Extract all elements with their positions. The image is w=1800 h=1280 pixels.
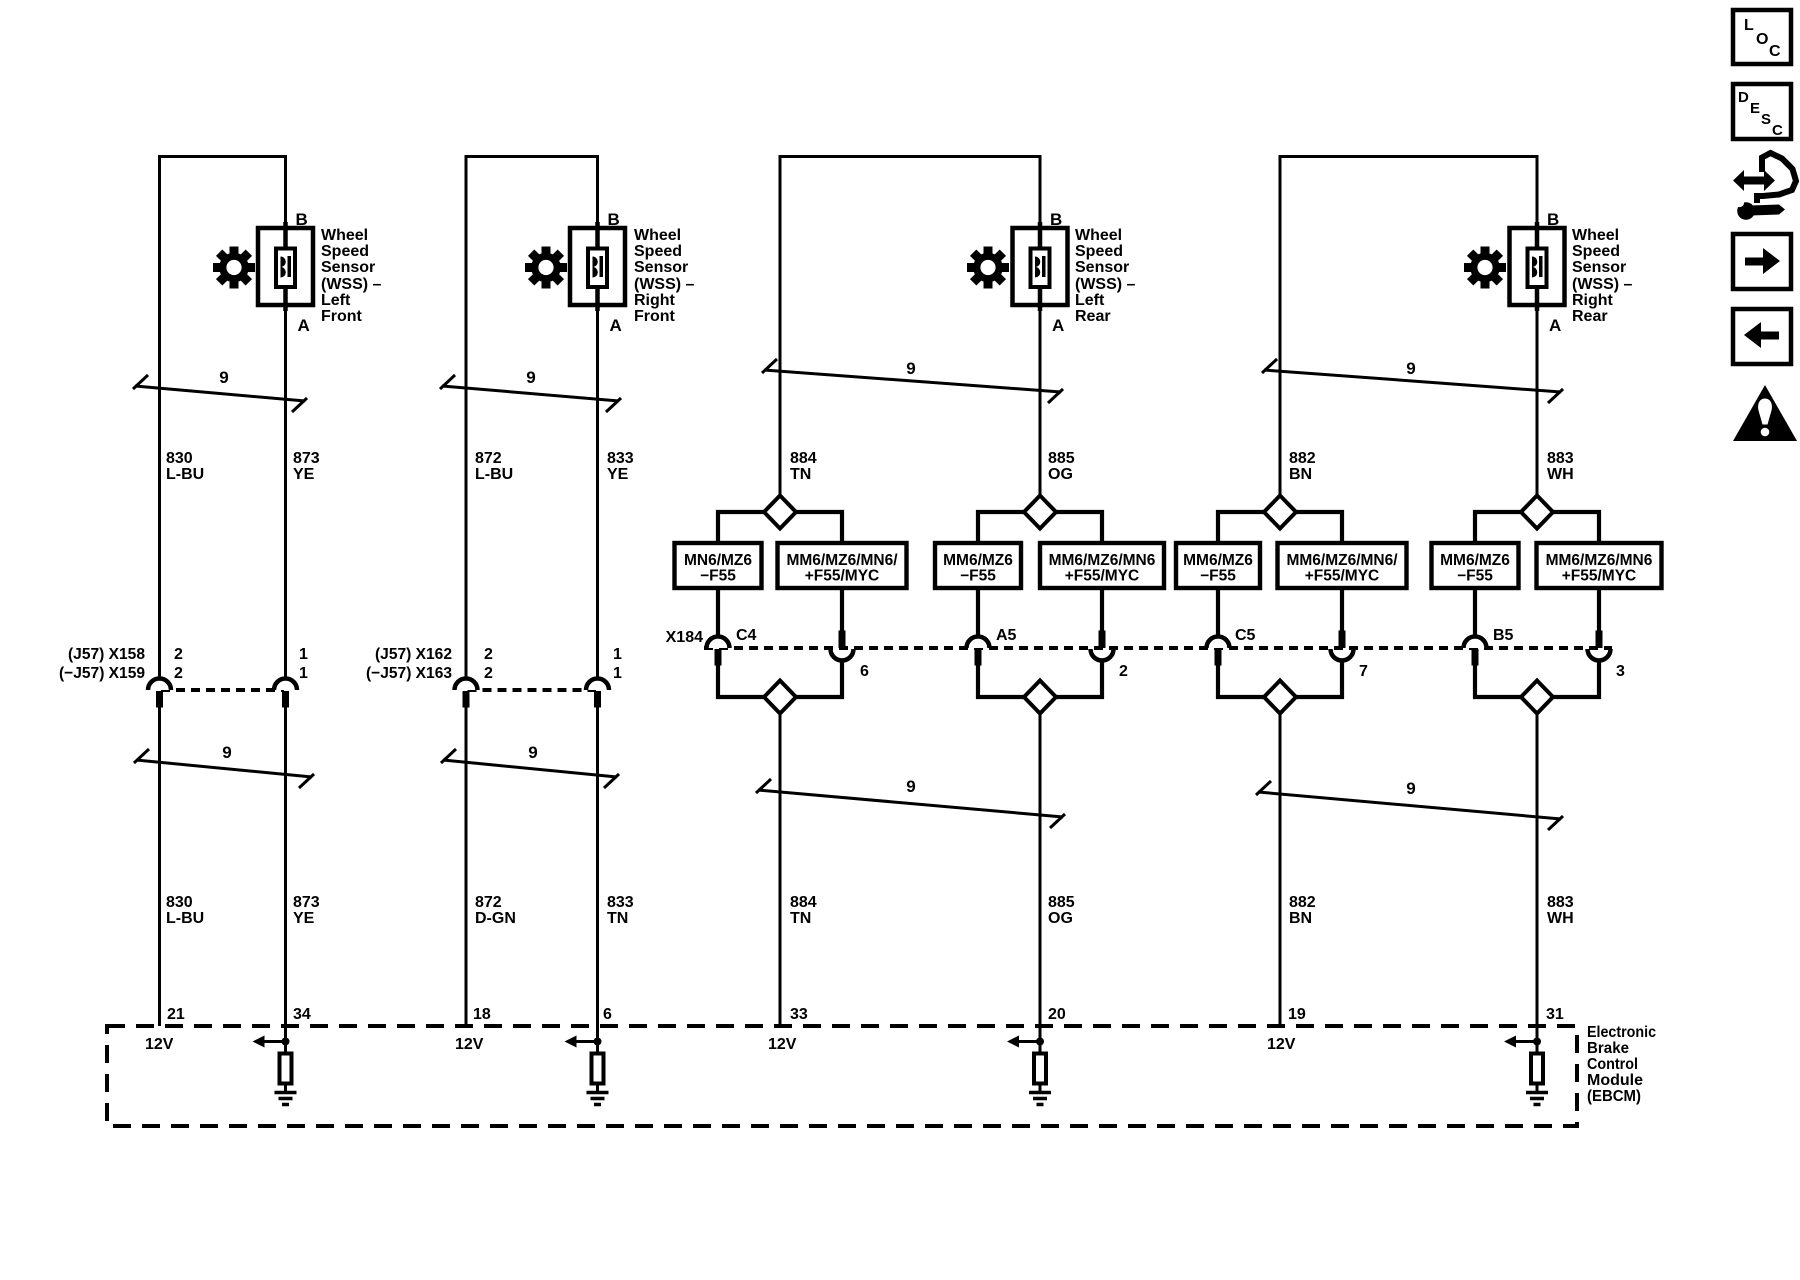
svg-text:Wheel: Wheel bbox=[321, 227, 368, 244]
svg-text:34: 34 bbox=[293, 1006, 311, 1023]
svg-text:(J57) X162: (J57) X162 bbox=[375, 646, 452, 663]
wire loop top LR sensor bbox=[779, 155, 1042, 158]
svg-text:Sensor: Sensor bbox=[321, 259, 375, 276]
svg-text:9: 9 bbox=[219, 368, 228, 387]
Wheel Speed Sensor (WSS) - Left Rear bbox=[1013, 210, 1068, 335]
svg-text:9: 9 bbox=[906, 777, 915, 796]
svg-text:12V: 12V bbox=[455, 1036, 484, 1053]
svg-text:MM6/MZ6/MN6/: MM6/MZ6/MN6/ bbox=[1286, 552, 1398, 569]
twisted pair marker 9 lower RR bbox=[1256, 781, 1563, 830]
svg-text:884: 884 bbox=[790, 450, 817, 467]
svg-text:2: 2 bbox=[174, 665, 183, 682]
node split wire 884 bbox=[718, 512, 842, 697]
svg-text:9: 9 bbox=[906, 359, 915, 378]
svg-text:6: 6 bbox=[603, 1006, 612, 1023]
gear icon RF bbox=[516, 238, 575, 297]
svg-text:(J57) X158: (J57) X158 bbox=[68, 646, 145, 663]
svg-text:830: 830 bbox=[166, 450, 193, 467]
svg-text:BN: BN bbox=[1289, 466, 1312, 483]
svg-text:OG: OG bbox=[1048, 910, 1073, 927]
connector X162/X163 terminal pin 1 bbox=[586, 679, 609, 708]
svg-text:882: 882 bbox=[1289, 450, 1316, 467]
svg-text:883: 883 bbox=[1547, 894, 1574, 911]
option box MM6/MZ6/MN6+F55/MYC (4) bbox=[1537, 543, 1662, 588]
svg-text:TN: TN bbox=[790, 910, 811, 927]
svg-text:873: 873 bbox=[293, 894, 320, 911]
svg-text:MM6/MZ6: MM6/MZ6 bbox=[943, 552, 1013, 569]
twisted pair marker 9 lower LF bbox=[134, 749, 314, 788]
svg-text:YE: YE bbox=[293, 466, 315, 483]
wire 883 WH lower bbox=[1536, 713, 1539, 1026]
connector X184 terminal A5 bbox=[967, 637, 990, 666]
Wheel Speed Sensor (WSS) - Right Rear bbox=[1510, 210, 1565, 335]
icon arrow right box bbox=[1733, 234, 1791, 289]
wire 885 OG lower bbox=[1039, 713, 1042, 1026]
svg-text:833: 833 bbox=[607, 894, 634, 911]
svg-text:884: 884 bbox=[790, 894, 817, 911]
wire 884 TN lower bbox=[779, 713, 782, 1026]
svg-text:Rear: Rear bbox=[1572, 308, 1608, 325]
svg-text:883: 883 bbox=[1547, 450, 1574, 467]
Wheel Speed Sensor (WSS) - Right Front bbox=[570, 210, 625, 335]
svg-text:MM6/MZ6/MN6/: MM6/MZ6/MN6/ bbox=[786, 552, 898, 569]
wire loop top RR sensor bbox=[1279, 155, 1539, 158]
svg-text:(−J57) X159: (−J57) X159 bbox=[59, 665, 145, 682]
svg-text:OG: OG bbox=[1048, 466, 1073, 483]
internal resistor to ground pin 31 bbox=[1504, 1026, 1548, 1105]
svg-text:−F55: −F55 bbox=[960, 568, 996, 585]
svg-text:872: 872 bbox=[475, 450, 502, 467]
svg-text:−F55: −F55 bbox=[1200, 568, 1236, 585]
svg-text:Sensor: Sensor bbox=[1572, 259, 1626, 276]
connector X158/X159 dashed line bbox=[161, 688, 284, 692]
Wheel Speed Sensor (WSS) - Left Front bbox=[258, 210, 313, 335]
svg-text:18: 18 bbox=[473, 1006, 491, 1023]
svg-text:885: 885 bbox=[1048, 894, 1075, 911]
wire 882 BN lower bbox=[1279, 713, 1282, 1026]
svg-text:TN: TN bbox=[607, 910, 628, 927]
option box MM6/MZ6/MN6+F55/MYC (2) bbox=[1040, 543, 1164, 588]
svg-text:O: O bbox=[1756, 31, 1768, 48]
icon LOC box bbox=[1733, 10, 1791, 64]
svg-text:Wheel: Wheel bbox=[1075, 227, 1122, 244]
svg-text:MM6/MZ6: MM6/MZ6 bbox=[1183, 552, 1253, 569]
svg-text:1: 1 bbox=[613, 665, 622, 682]
wire 872 D-GN lower bbox=[465, 707, 468, 1026]
wire 873 YE upper bbox=[284, 155, 287, 678]
EBCM module dashed box bbox=[107, 1026, 1577, 1126]
wire 833 YE upper bbox=[596, 155, 599, 678]
svg-text:(WSS) –: (WSS) – bbox=[1572, 276, 1633, 293]
connector X162/X163 terminal pin 2 bbox=[455, 679, 478, 708]
svg-text:L-BU: L-BU bbox=[475, 466, 513, 483]
svg-text:Wheel: Wheel bbox=[1572, 227, 1619, 244]
svg-text:872: 872 bbox=[475, 894, 502, 911]
svg-text:833: 833 bbox=[607, 450, 634, 467]
svg-text:YE: YE bbox=[607, 466, 629, 483]
svg-text:Brake: Brake bbox=[1587, 1040, 1629, 1057]
svg-text:Module: Module bbox=[1587, 1072, 1643, 1089]
svg-text:C: C bbox=[1769, 43, 1781, 60]
svg-text:MN6/MZ6: MN6/MZ6 bbox=[684, 552, 752, 569]
svg-text:WH: WH bbox=[1547, 910, 1574, 927]
svg-text:6: 6 bbox=[860, 663, 869, 680]
internal resistor to ground pin 6 bbox=[565, 1026, 609, 1105]
connector X158/X159 terminal pin 2 bbox=[148, 679, 171, 708]
svg-text:Front: Front bbox=[321, 308, 363, 325]
svg-text:31: 31 bbox=[1546, 1006, 1564, 1023]
svg-text:A5: A5 bbox=[996, 627, 1017, 644]
svg-text:12V: 12V bbox=[1267, 1036, 1296, 1053]
icon warning triangle bbox=[1733, 385, 1797, 441]
svg-text:Sensor: Sensor bbox=[1075, 259, 1129, 276]
svg-text:X184: X184 bbox=[666, 629, 703, 646]
wire 830 L-BU upper bbox=[158, 155, 161, 678]
option box MM6/MZ6/MN6/+F55/MYC (3) bbox=[1278, 543, 1407, 588]
svg-text:E: E bbox=[1750, 100, 1760, 117]
svg-text:1: 1 bbox=[613, 646, 622, 663]
twisted pair marker 9 upper RF bbox=[440, 375, 621, 412]
svg-text:Right: Right bbox=[634, 292, 676, 309]
svg-text:2: 2 bbox=[1119, 663, 1128, 680]
svg-text:C: C bbox=[1772, 122, 1783, 139]
option box MM6/MZ6/MN6/+F55/MYC (1) bbox=[778, 543, 907, 588]
connector X184 dashed line bbox=[704, 646, 1612, 650]
twisted pair marker 9 upper RR bbox=[1262, 359, 1563, 403]
icon DESC box bbox=[1733, 84, 1791, 139]
svg-text:9: 9 bbox=[1406, 779, 1415, 798]
wire 882 BN upper bbox=[1279, 155, 1282, 496]
svg-text:TN: TN bbox=[790, 466, 811, 483]
wire loop top LF sensor bbox=[158, 155, 287, 158]
svg-text:2: 2 bbox=[174, 646, 183, 663]
gear icon LR bbox=[958, 238, 1017, 297]
svg-text:−F55: −F55 bbox=[1457, 568, 1493, 585]
svg-text:−F55: −F55 bbox=[700, 568, 736, 585]
svg-text:885: 885 bbox=[1048, 450, 1075, 467]
svg-text:YE: YE bbox=[293, 910, 315, 927]
svg-text:1: 1 bbox=[299, 646, 308, 663]
gear icon RR bbox=[1455, 238, 1514, 297]
option box MN6/MZ6 -F55 (1) bbox=[675, 543, 762, 588]
svg-text:+F55/MYC: +F55/MYC bbox=[1562, 568, 1637, 585]
option box MM6/MZ6 -F55 (3) bbox=[1176, 543, 1260, 588]
svg-text:L: L bbox=[1744, 17, 1754, 34]
svg-text:Wheel: Wheel bbox=[634, 227, 681, 244]
svg-text:S: S bbox=[1761, 111, 1771, 128]
svg-text:Speed: Speed bbox=[321, 243, 369, 260]
svg-text:7: 7 bbox=[1359, 663, 1368, 680]
internal resistor to ground pin 34 bbox=[253, 1026, 297, 1105]
svg-text:Speed: Speed bbox=[634, 243, 682, 260]
svg-text:BN: BN bbox=[1289, 910, 1312, 927]
svg-text:D: D bbox=[1738, 89, 1749, 106]
svg-text:12V: 12V bbox=[768, 1036, 797, 1053]
wire 872 L-BU upper bbox=[465, 155, 468, 678]
svg-text:Sensor: Sensor bbox=[634, 259, 688, 276]
svg-text:+F55/MYC: +F55/MYC bbox=[805, 568, 880, 585]
gear icon LF bbox=[204, 238, 263, 297]
svg-text:+F55/MYC: +F55/MYC bbox=[1305, 568, 1380, 585]
connector X158/X159 terminal pin 1 bbox=[274, 679, 297, 708]
connector X162/X163 dashed line bbox=[468, 688, 597, 692]
svg-text:12V: 12V bbox=[145, 1036, 174, 1053]
twisted pair marker 9 upper LR bbox=[762, 359, 1063, 403]
svg-text:Front: Front bbox=[634, 308, 676, 325]
svg-text:Speed: Speed bbox=[1572, 243, 1620, 260]
node split wire 883 bbox=[1475, 512, 1599, 697]
svg-text:MM6/MZ6/MN6: MM6/MZ6/MN6 bbox=[1546, 552, 1653, 569]
svg-text:9: 9 bbox=[222, 743, 231, 762]
icon arrow left box bbox=[1733, 309, 1791, 364]
icon swap/repair bbox=[1733, 153, 1796, 220]
svg-text:L-BU: L-BU bbox=[166, 910, 204, 927]
svg-text:L-BU: L-BU bbox=[166, 466, 204, 483]
svg-text:C4: C4 bbox=[736, 627, 757, 644]
connector X184 terminal 2 bbox=[1091, 631, 1114, 661]
connector X184 terminal 7 bbox=[1331, 631, 1354, 661]
svg-text:WH: WH bbox=[1547, 466, 1574, 483]
svg-text:830: 830 bbox=[166, 894, 193, 911]
svg-text:Left: Left bbox=[1075, 292, 1105, 309]
wire 883 WH upper bbox=[1536, 155, 1539, 496]
svg-text:9: 9 bbox=[528, 743, 537, 762]
svg-text:MM6/MZ6/MN6: MM6/MZ6/MN6 bbox=[1049, 552, 1156, 569]
connector X184 terminal C4 bbox=[707, 637, 730, 666]
svg-text:2: 2 bbox=[484, 665, 493, 682]
wire 884 TN upper bbox=[779, 155, 782, 496]
twisted pair marker 9 upper LF bbox=[133, 375, 307, 412]
wire 830 L-BU lower bbox=[158, 707, 161, 1026]
svg-text:882: 882 bbox=[1289, 894, 1316, 911]
svg-text:873: 873 bbox=[293, 450, 320, 467]
svg-text:33: 33 bbox=[790, 1006, 808, 1023]
svg-text:Left: Left bbox=[321, 292, 351, 309]
wire loop top RF sensor bbox=[465, 155, 600, 158]
svg-text:(EBCM): (EBCM) bbox=[1587, 1088, 1641, 1105]
svg-text:MM6/MZ6: MM6/MZ6 bbox=[1440, 552, 1510, 569]
wire 833 TN lower bbox=[596, 707, 599, 1026]
twisted pair marker 9 lower RF bbox=[441, 749, 619, 788]
svg-text:(−J57) X163: (−J57) X163 bbox=[366, 665, 452, 682]
svg-text:D-GN: D-GN bbox=[475, 910, 516, 927]
internal resistor to ground pin 20 bbox=[1007, 1026, 1051, 1105]
svg-text:+F55/MYC: +F55/MYC bbox=[1065, 568, 1140, 585]
svg-text:Electronic: Electronic bbox=[1587, 1024, 1656, 1041]
node split wire 885 bbox=[978, 512, 1102, 697]
option box MM6/MZ6 -F55 (4) bbox=[1432, 543, 1519, 588]
svg-text:(WSS) –: (WSS) – bbox=[1075, 276, 1136, 293]
connector X184 terminal 6 bbox=[831, 631, 854, 661]
svg-text:Rear: Rear bbox=[1075, 308, 1111, 325]
node split wire 882 bbox=[1218, 512, 1342, 697]
svg-text:21: 21 bbox=[167, 1006, 185, 1023]
connector X184 terminal C5 bbox=[1207, 637, 1230, 666]
svg-text:1: 1 bbox=[299, 665, 308, 682]
svg-text:C5: C5 bbox=[1235, 627, 1256, 644]
svg-text:Right: Right bbox=[1572, 292, 1614, 309]
svg-text:Control: Control bbox=[1587, 1056, 1638, 1073]
wire 885 OG upper bbox=[1039, 155, 1042, 496]
connector X184 terminal B5 bbox=[1464, 637, 1487, 666]
connector X184 terminal 3 bbox=[1588, 631, 1611, 661]
svg-text:3: 3 bbox=[1616, 663, 1625, 680]
svg-text:19: 19 bbox=[1288, 1006, 1306, 1023]
option box MM6/MZ6 -F55 (2) bbox=[935, 543, 1021, 588]
svg-text:9: 9 bbox=[526, 368, 535, 387]
svg-text:B5: B5 bbox=[1493, 627, 1514, 644]
twisted pair marker 9 lower LR bbox=[756, 779, 1065, 828]
svg-text:(WSS) –: (WSS) – bbox=[321, 276, 382, 293]
wire 873 YE lower bbox=[284, 707, 287, 1026]
svg-text:2: 2 bbox=[484, 646, 493, 663]
svg-text:20: 20 bbox=[1048, 1006, 1066, 1023]
svg-text:Speed: Speed bbox=[1075, 243, 1123, 260]
svg-text:(WSS) –: (WSS) – bbox=[634, 276, 695, 293]
svg-text:9: 9 bbox=[1406, 359, 1415, 378]
